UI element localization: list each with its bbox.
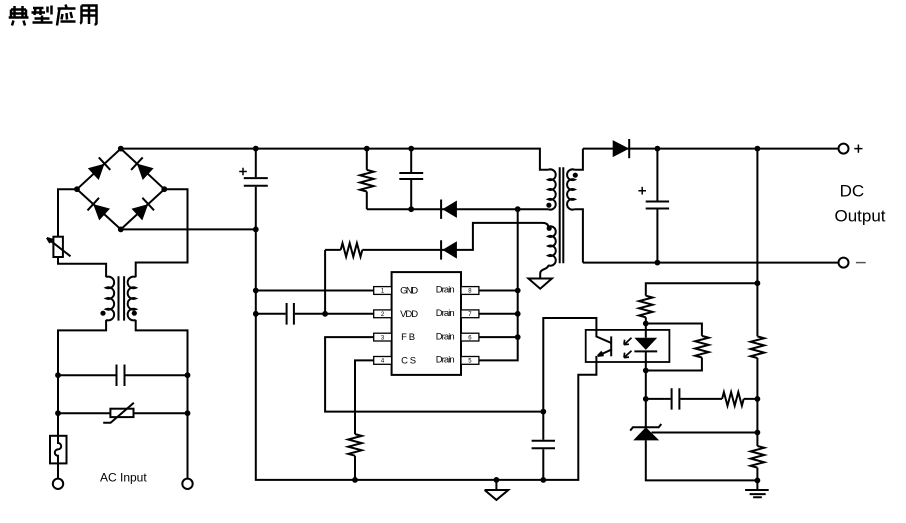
svg-text:FB: FB	[401, 332, 415, 343]
svg-text:Drain: Drain	[436, 285, 455, 296]
svg-text:Drain: Drain	[436, 308, 455, 319]
svg-text:AC Input: AC Input	[100, 471, 147, 485]
svg-text:VDD: VDD	[400, 309, 418, 320]
svg-text:DC: DC	[840, 182, 865, 201]
svg-text:GND: GND	[400, 286, 418, 297]
svg-text:Output: Output	[834, 207, 885, 226]
svg-text:CS: CS	[401, 355, 416, 366]
svg-text:Drain: Drain	[436, 331, 455, 342]
svg-text:Drain: Drain	[436, 355, 455, 366]
